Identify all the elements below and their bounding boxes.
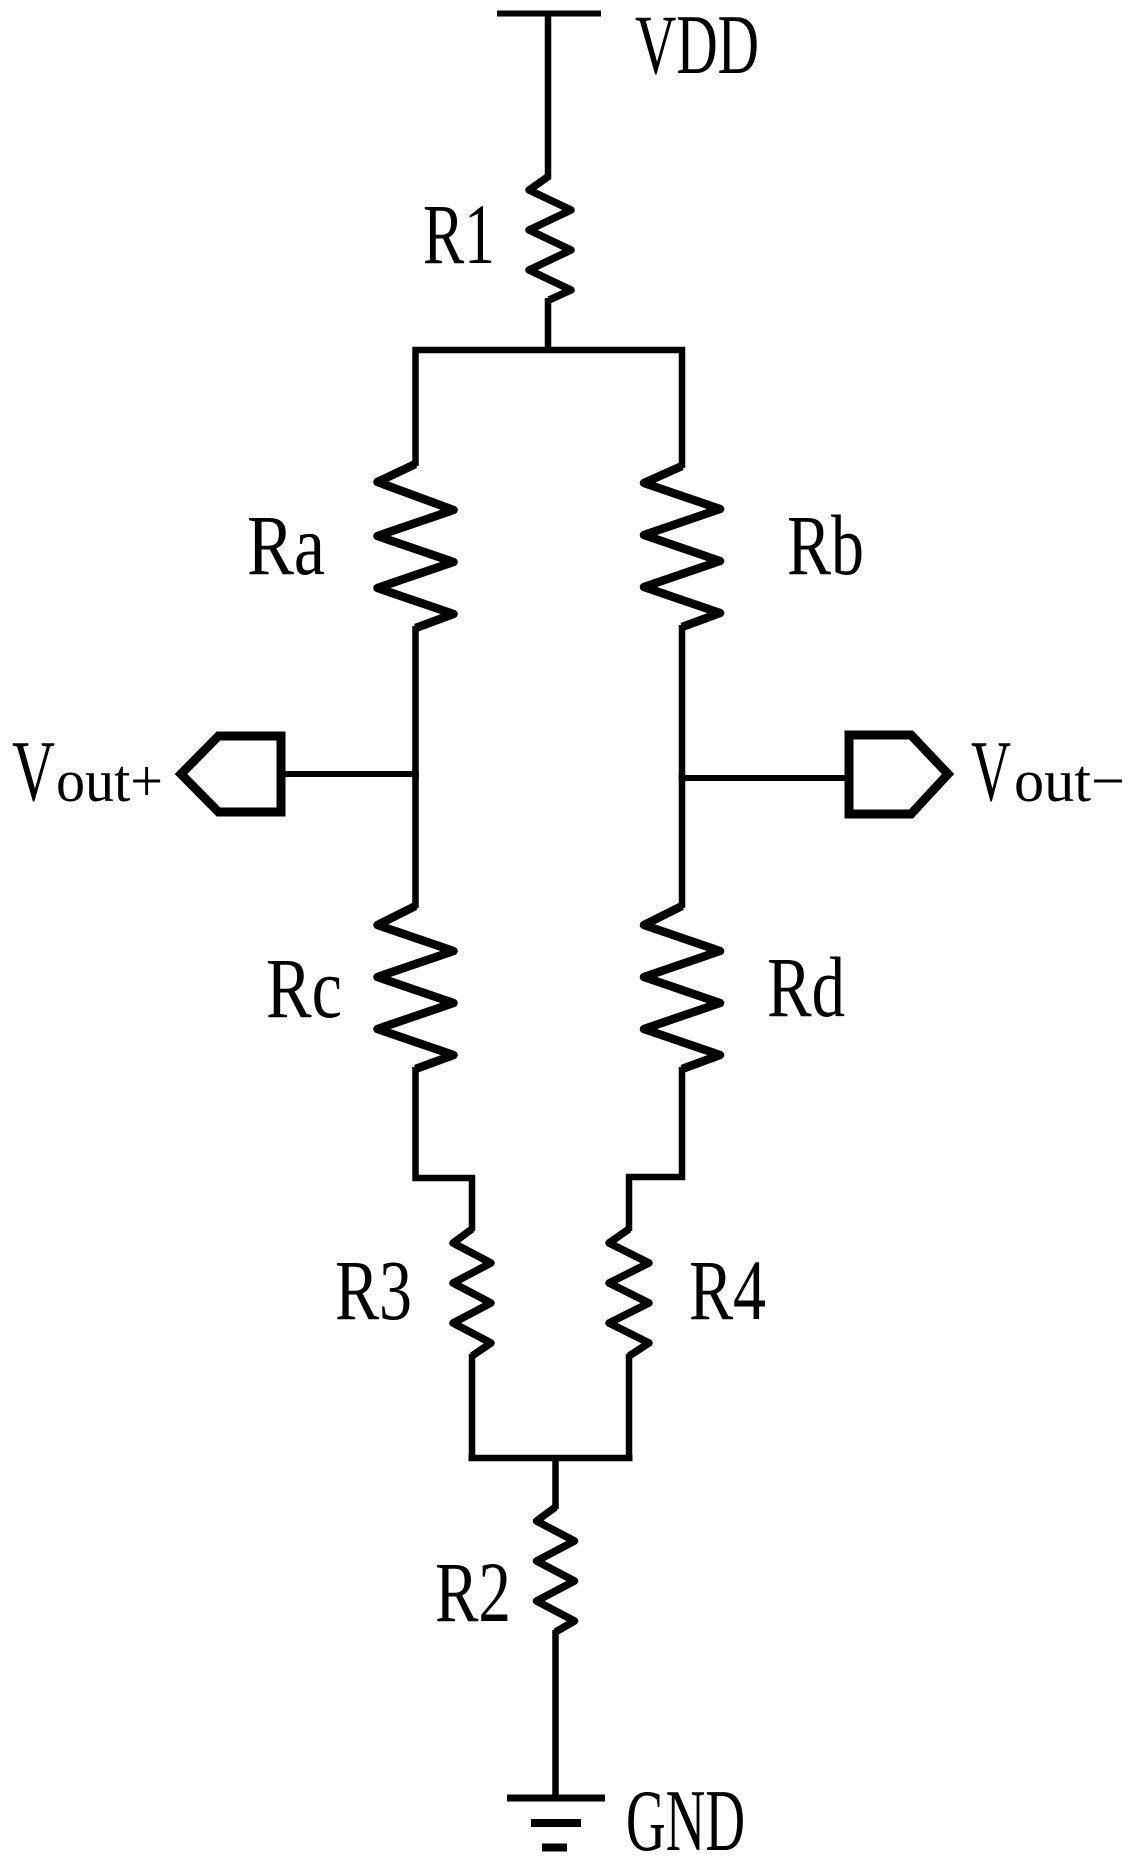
wire lead to terminal Vout-: [679, 775, 852, 781]
svg-text:R3: R3: [335, 1242, 412, 1338]
wire lead to terminal Vout+: [277, 771, 418, 777]
wire Ra to node Vout+: [412, 626, 419, 778]
resistor Rc: [378, 906, 454, 1069]
wire node Vout+ to Rc: [412, 770, 419, 908]
ground: [507, 1798, 605, 1848]
wire left jog horizontal: [413, 1175, 476, 1182]
resistor R1: [529, 176, 571, 300]
resistor R4: [609, 1229, 649, 1356]
wire right jog horizontal: [626, 1174, 685, 1181]
resistor Rb: [644, 466, 720, 627]
wire top rail to Ra: [412, 347, 419, 466]
resistor R3: [453, 1229, 491, 1356]
resistor Rd: [644, 906, 720, 1069]
svg-text:R4: R4: [689, 1242, 766, 1338]
resistor R2: [537, 1507, 575, 1632]
wire top rail to Rb: [679, 347, 686, 468]
wire R3 to bottom rail: [469, 1354, 476, 1461]
svg-text:out−: out−: [1014, 748, 1125, 814]
svg-text:out+: out+: [56, 748, 163, 814]
svg-text:R1: R1: [423, 186, 495, 282]
wire Rb to node Vout-: [679, 625, 686, 782]
svg-text:V: V: [12, 722, 55, 819]
svg-text:R2: R2: [435, 1544, 511, 1640]
wire left jog to R3: [469, 1175, 476, 1231]
terminal Vout-: [849, 735, 948, 814]
wire Rc to left jog: [412, 1067, 419, 1181]
wire top rail: [413, 347, 686, 354]
svg-text:Rc: Rc: [266, 940, 342, 1036]
svg-text:GND: GND: [626, 1773, 745, 1864]
wire bottom rail to R2: [552, 1458, 559, 1509]
wire Rd to right jog: [679, 1067, 686, 1180]
VDD power bar: [497, 11, 601, 17]
wire R4 to bottom rail: [626, 1354, 633, 1461]
svg-text:Rb: Rb: [787, 497, 864, 593]
wire right jog to R4: [626, 1174, 633, 1231]
svg-text:Rd: Rd: [767, 939, 845, 1035]
terminal Vout+: [181, 736, 281, 812]
wire node Vout- to Rd: [679, 774, 686, 908]
svg-text:Ra: Ra: [247, 497, 325, 593]
wire bottom rail: [469, 1455, 633, 1462]
wire R1 to top rail: [545, 298, 552, 350]
resistor Ra: [378, 464, 454, 628]
wire R2 to ground: [552, 1630, 559, 1798]
wire VDD to R1: [545, 14, 552, 180]
svg-text:VDD: VDD: [635, 0, 759, 92]
svg-text:V: V: [971, 722, 1011, 819]
